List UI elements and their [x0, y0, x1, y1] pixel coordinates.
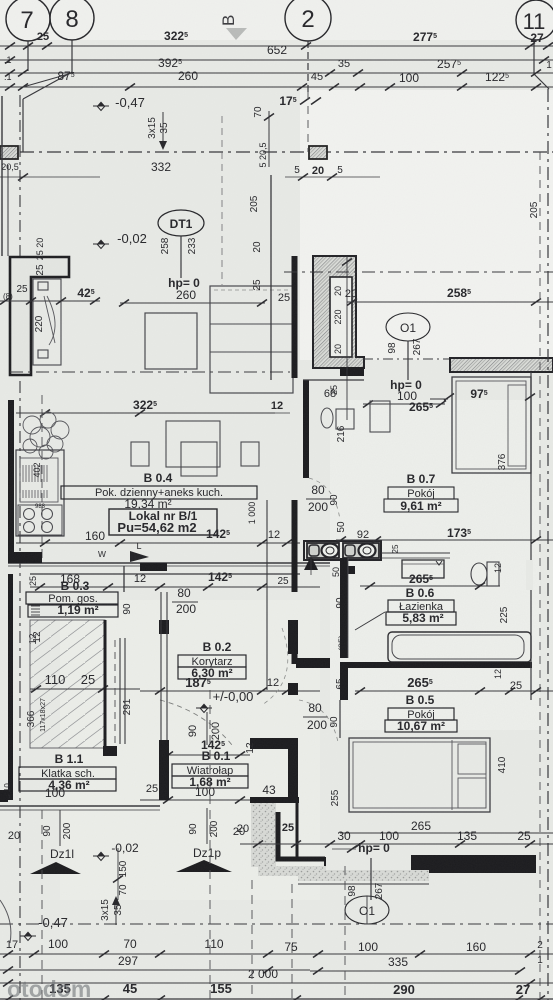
- wall bar y740 between corridor and wiatrolap: [250, 738, 298, 749]
- wire 87.5 diagonal leaders: [23, 73, 72, 87]
- left wall edge lines top: [1, 96, 3, 256]
- axis bubble 2: [285, 0, 331, 41]
- duct shaft white: [330, 277, 352, 357]
- wardrobe top center: [210, 286, 293, 393]
- dash-dot line y272 right part: [284, 271, 553, 273]
- paper grain overlay: [0, 0, 1, 1]
- bath leader line: [355, 612, 385, 630]
- stairs right wall x105: [104, 620, 107, 748]
- door arc bottom left: [0, 900, 11, 943]
- wall lower line y574: [30, 573, 300, 575]
- leader hp0 bottom: [370, 858, 372, 900]
- axis leader 11: [533, 40, 535, 74]
- window symbol O1 lower: [345, 896, 389, 924]
- right wall lines bathroom: [530, 372, 532, 700]
- bed B0.7: [452, 377, 531, 473]
- hatched wall stub left y146: [0, 146, 18, 159]
- level -0.02 lower: [93, 852, 109, 861]
- axis leader 8: [71, 40, 73, 72]
- DT1 leader line: [180, 236, 182, 278]
- walls around pom.gos: [123, 566, 125, 592]
- wall x267-271 corridor right: [266, 500, 268, 580]
- door arc B0.5: [299, 700, 338, 742]
- window/door frame left x33: [33, 279, 61, 365]
- plant top-left: [23, 412, 69, 459]
- level -0.47 bottom: [20, 932, 36, 941]
- level marker -0.02 upper: [93, 240, 109, 249]
- wiatrolap right wall hatched: [250, 797, 299, 803]
- dim line y301 left: [0, 300, 100, 302]
- dash-dot sill line y359: [363, 358, 450, 360]
- dining table with chairs: [166, 421, 220, 467]
- axis dashed verticals bottom: [209, 690, 211, 999]
- left outer wall segments lower: [8, 630, 13, 800]
- dim row 4: 87.5 260 45 100 122.5: [0, 86, 310, 88]
- wall top-left thick outline: [10, 257, 69, 375]
- bottom wall B0.5 right: [411, 855, 536, 873]
- dim row 2: 652: [0, 59, 553, 61]
- vent stack DT1 bubble: [158, 210, 204, 236]
- axis 2 dashed continuation: [307, 92, 309, 152]
- right wall dashed x540: [539, 152, 541, 1000]
- wall pieces around entry doors: [0, 805, 160, 807]
- kitchen stove burners: [18, 505, 62, 535]
- wall central black bar x292: [292, 256, 298, 378]
- left wall black bar x10 kitchen: [8, 400, 14, 559]
- right axis dash-dot x548: [547, 89, 549, 1000]
- stepped wall nub near w: [140, 563, 167, 571]
- dash-dot line y924 bottom: [0, 923, 553, 925]
- left wall bar between B1.1 and B0.1: [159, 620, 169, 634]
- dash-dot line y152: [20, 151, 553, 153]
- door swing arc corridor: [160, 700, 232, 745]
- desk and chair B0.7: [336, 409, 354, 429]
- toilet: [487, 562, 499, 586]
- axis leader 7: [27, 41, 29, 71]
- left axis dash-dot vertical: [19, 95, 21, 256]
- bath walls: [340, 558, 348, 658]
- axis bubble 11: [516, 0, 553, 40]
- Lokal nr B/1 box: [109, 509, 217, 535]
- dashed line y372 across living room: [10, 371, 290, 373]
- door swing arc left room: [47, 296, 55, 345]
- dims row y843: [240, 843, 553, 845]
- walls right of corridor upper: [288, 620, 298, 654]
- window symbol O1 upper: [386, 313, 430, 341]
- bathtub: [388, 632, 531, 662]
- wall central x292 segments with door gaps: [292, 500, 298, 592]
- axis leader 2: [307, 41, 309, 92]
- kitchen axis dashed x42: [41, 395, 43, 560]
- kitchen sink comb: [20, 465, 47, 498]
- wall black bar to bedroom B0.7: [340, 367, 364, 376]
- wall hatched column with duct: [313, 256, 364, 368]
- dim row 3: 392.5 35 257.5: [0, 72, 553, 74]
- wall stub mid x105 y746: [103, 746, 117, 756]
- dim 20 258.5 row: [347, 301, 553, 303]
- wall line x269 upper: [270, 175, 272, 256]
- axis bubble 8: [50, 0, 94, 40]
- washbasin counter: [304, 541, 381, 560]
- kitchen counter left: [16, 450, 64, 536]
- hatched wall stub x310 y146: [309, 146, 327, 159]
- wall hatched band top of B0.7: [450, 358, 553, 372]
- wall B0.7 left black bars: [303, 380, 309, 478]
- dim row 1: 25 322.5 277.5 27: [0, 45, 553, 47]
- table top-left of living room: [145, 313, 197, 369]
- stairwell hatched flights: [30, 620, 105, 748]
- axis bubble 7: [6, 0, 50, 41]
- stipple band below B0.5 wall: [258, 866, 326, 876]
- washing machine: [402, 560, 444, 578]
- bed B0.5: [349, 738, 490, 812]
- O1 leader: [407, 341, 409, 380]
- door arc B0.7: [309, 478, 340, 520]
- vertical dim line x347: [346, 256, 348, 420]
- level marker -0.47 top: [93, 102, 109, 111]
